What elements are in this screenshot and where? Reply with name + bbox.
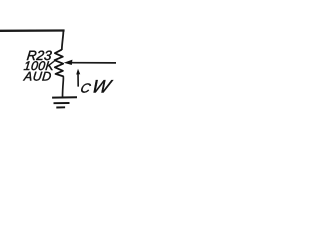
wire vertical to pot <box>62 31 64 50</box>
wire top horizontal <box>0 29 65 32</box>
wire pot bottom lead <box>62 76 65 97</box>
cw direction arrowhead <box>76 69 80 75</box>
potentiometer R23 zigzag body <box>55 50 64 77</box>
wiper arrow wire <box>72 62 117 64</box>
ground middle bar <box>54 102 70 104</box>
cw direction arrow shaft <box>77 73 79 87</box>
svg-text:AUD: AUD <box>22 69 52 83</box>
svg-text:W: W <box>90 76 116 96</box>
wiper arrowhead <box>64 60 73 65</box>
ground top bar <box>52 96 77 98</box>
ground bottom bar <box>56 106 65 108</box>
